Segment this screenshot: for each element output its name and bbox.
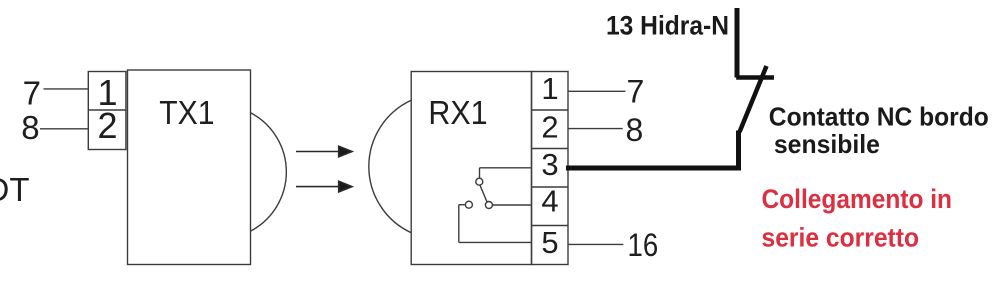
svg-text:16: 16: [628, 227, 659, 263]
svg-text:DT: DT: [0, 171, 30, 208]
svg-text:2: 2: [541, 110, 558, 145]
svg-text:sensibile: sensibile: [774, 129, 880, 159]
svg-text:7: 7: [627, 74, 645, 110]
svg-text:7: 7: [23, 75, 41, 112]
svg-text:3: 3: [541, 147, 558, 182]
svg-text:RX1: RX1: [428, 94, 487, 131]
svg-text:8: 8: [21, 109, 39, 146]
svg-text:TX1: TX1: [159, 94, 214, 131]
svg-text:Contatto NC bordo: Contatto NC bordo: [769, 102, 989, 132]
svg-text:5: 5: [541, 225, 558, 260]
svg-text:4: 4: [541, 184, 558, 219]
svg-text:2: 2: [97, 105, 117, 146]
svg-text:Collegamento in: Collegamento in: [762, 184, 953, 214]
svg-text:serie corretto: serie corretto: [762, 222, 920, 252]
svg-text:1: 1: [541, 71, 558, 106]
svg-text:8: 8: [626, 112, 644, 148]
svg-text:13 Hidra-N: 13 Hidra-N: [606, 10, 729, 40]
